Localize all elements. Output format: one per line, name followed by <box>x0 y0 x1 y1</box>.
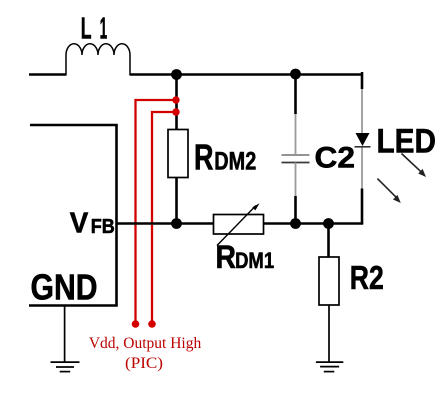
svg-text:R2: R2 <box>350 259 384 296</box>
svg-text:DM2: DM2 <box>214 148 256 176</box>
svg-text:FB: FB <box>91 215 115 238</box>
svg-text:L: L <box>81 11 92 46</box>
svg-text:R: R <box>216 239 237 275</box>
svg-text:DM1: DM1 <box>235 248 274 273</box>
svg-text:(PIC): (PIC) <box>125 355 163 372</box>
svg-text:1: 1 <box>100 11 108 46</box>
svg-text:GND: GND <box>31 267 98 308</box>
svg-text:LED: LED <box>377 123 437 161</box>
svg-text:Vdd, Output High: Vdd, Output High <box>89 335 202 352</box>
svg-text:C2: C2 <box>315 142 356 175</box>
svg-text:R: R <box>194 137 214 178</box>
svg-text:V: V <box>70 208 89 240</box>
